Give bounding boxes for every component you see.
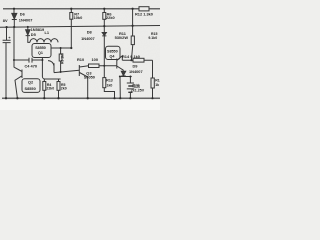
svg-text:1N4007: 1N4007: [129, 69, 143, 74]
svg-text:530/2W: 530/2W: [115, 35, 129, 40]
svg-text:R14 9.1k0: R14 9.1k0: [122, 54, 140, 59]
svg-text:1k: 1k: [155, 83, 159, 87]
svg-text:S8050: S8050: [84, 75, 95, 80]
svg-text:电池: 电池: [132, 83, 140, 88]
svg-text:2x1.25V: 2x1.25V: [131, 89, 145, 93]
svg-text:C4 470: C4 470: [25, 64, 38, 69]
svg-text:R1: R1: [155, 79, 160, 83]
svg-text:R10: R10: [77, 57, 84, 62]
svg-text:22k0: 22k0: [46, 87, 54, 91]
svg-text:D9: D9: [133, 64, 139, 69]
svg-text:S8550: S8550: [107, 49, 118, 53]
svg-text:R13: R13: [106, 79, 112, 83]
svg-text:R9 1k0: R9 1k0: [61, 53, 65, 64]
svg-text:S8550: S8550: [35, 46, 46, 50]
svg-text:S8550: S8550: [25, 86, 36, 91]
svg-text:Q2: Q2: [28, 80, 34, 85]
svg-text:2k0: 2k0: [61, 87, 67, 91]
svg-text:1k0: 1k0: [107, 83, 113, 87]
svg-text:D6: D6: [20, 12, 26, 17]
svg-text:R12 1.3k0: R12 1.3k0: [135, 11, 153, 16]
svg-text:9.1k0: 9.1k0: [148, 36, 157, 40]
svg-text:1N4007: 1N4007: [81, 36, 95, 41]
svg-text:10k0: 10k0: [74, 15, 83, 20]
svg-text:100: 100: [92, 57, 99, 62]
svg-text:8V: 8V: [3, 18, 8, 23]
svg-text:22k0: 22k0: [106, 15, 115, 20]
svg-text:D8: D8: [87, 30, 93, 35]
svg-text:Q1: Q1: [38, 51, 43, 55]
svg-text:D5: D5: [31, 32, 37, 37]
svg-text:1N4007: 1N4007: [19, 17, 33, 22]
